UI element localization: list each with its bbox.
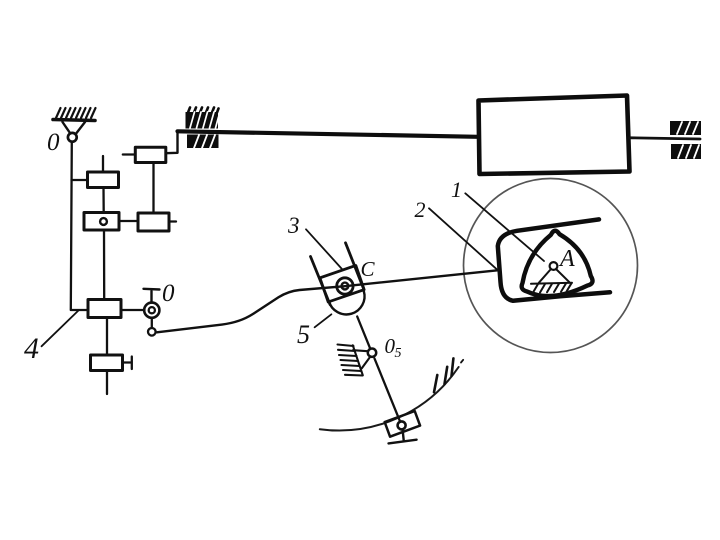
block B4 <box>91 355 123 371</box>
svg-text:2: 2 <box>415 197 426 222</box>
wire B1-B2 <box>102 188 104 213</box>
link O5 to arc slider <box>375 359 401 422</box>
right bearing upper block <box>670 121 701 135</box>
right bearing lower block <box>671 144 701 159</box>
leader 3 <box>306 229 343 269</box>
link rod from O downward <box>71 142 72 310</box>
svg-text:C: C <box>361 257 376 281</box>
block T1 <box>135 147 166 162</box>
link C fork to O5 <box>357 317 370 349</box>
pivot A <box>550 262 558 270</box>
ground at A <box>531 270 572 293</box>
cam 1 <box>522 231 593 296</box>
slide rod to housing <box>178 131 479 137</box>
pivot D stem <box>144 289 160 303</box>
stub right of T2 <box>169 220 176 222</box>
machine housing rectangle <box>479 96 630 175</box>
connecting rod from joint below D through C to frame <box>157 270 498 332</box>
detail circle <box>464 179 638 353</box>
pivot O circle <box>68 133 77 142</box>
pin in arc slider <box>398 421 406 429</box>
pivot O support triangle <box>63 122 86 133</box>
block B1 <box>88 172 119 188</box>
block B2 <box>84 213 119 231</box>
pivot O5 <box>368 349 376 357</box>
stub to block B1 <box>72 179 88 181</box>
svg-text:4: 4 <box>24 332 39 365</box>
fork semicircle below C <box>329 291 365 314</box>
leader 5 <box>315 314 332 327</box>
elbow wire T1 to slide rod <box>166 132 178 154</box>
shaft right of housing <box>630 138 701 139</box>
slotted link rail left <box>311 257 331 305</box>
stub to block B3 <box>71 309 88 311</box>
stub above B1 <box>102 156 104 172</box>
ground at O5 <box>338 345 371 376</box>
curved guide arc <box>320 367 459 430</box>
arc hatching <box>434 358 453 392</box>
svg-text:A: A <box>558 246 575 272</box>
slider on arc <box>385 411 420 437</box>
pin C <box>337 278 353 294</box>
tail below B4 <box>106 371 108 395</box>
wire B2-T2 <box>119 220 138 222</box>
wire B3-B4 <box>106 318 108 356</box>
leader 2 <box>429 208 497 269</box>
pivot D circles <box>144 303 159 318</box>
pin in B2 <box>100 218 107 225</box>
wire B2-B3 <box>103 230 105 300</box>
joint below D <box>148 318 156 336</box>
wire B3 to pivot D <box>121 309 145 311</box>
svg-text:1: 1 <box>451 177 462 202</box>
fixed support hatching at pivot O <box>53 108 96 121</box>
frame follower with guide rails <box>498 219 610 300</box>
svg-text:5: 5 <box>395 346 402 361</box>
slider block at C <box>320 266 364 302</box>
block T2 <box>138 213 169 231</box>
wire T1-T2 <box>152 163 154 214</box>
svg-text:5: 5 <box>297 320 310 349</box>
svg-text:0: 0 <box>162 280 175 307</box>
stub left of T1 <box>123 153 136 155</box>
arc end tick <box>461 360 463 363</box>
svg-text:0: 0 <box>47 129 60 156</box>
block B3 <box>88 300 121 318</box>
leader 4 <box>42 311 79 347</box>
stem below arc slider <box>389 430 417 444</box>
fixed guide upper block <box>186 108 219 129</box>
svg-text:3: 3 <box>287 213 300 238</box>
slotted link rail right <box>346 243 364 289</box>
stub right of B4 <box>123 357 132 370</box>
fixed guide lower block <box>187 135 219 149</box>
leader 1 <box>465 193 544 261</box>
